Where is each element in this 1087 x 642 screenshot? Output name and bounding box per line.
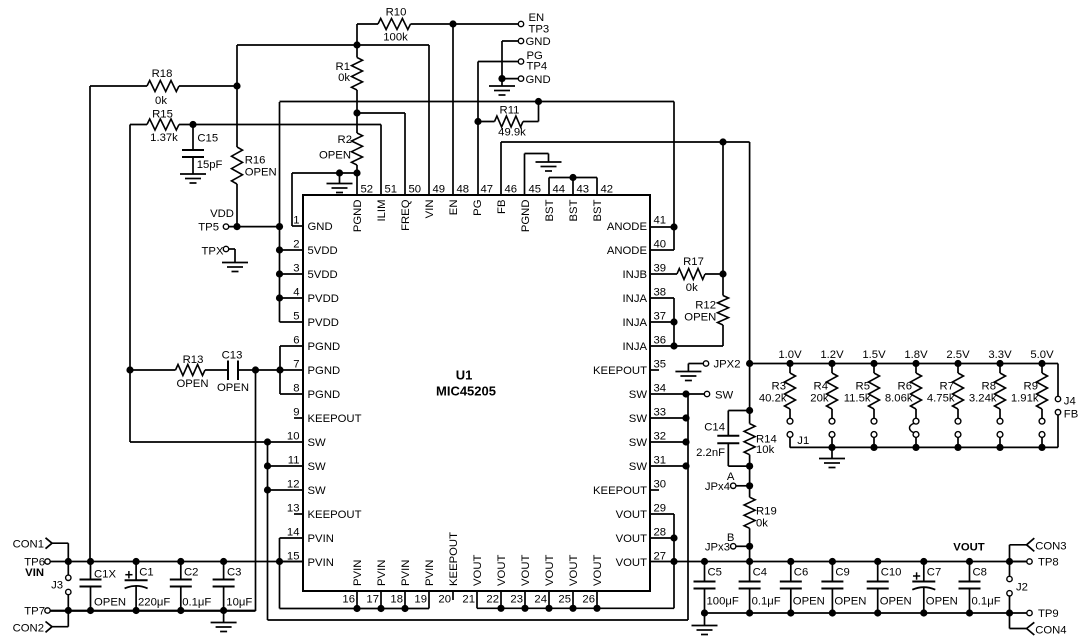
- svg-text:51: 51: [385, 184, 398, 196]
- wire INJB vertical x723 from FB bus: [722, 142, 724, 274]
- svg-text:PGND: PGND: [308, 389, 341, 401]
- capacitor C3 10uF: [213, 562, 253, 611]
- svg-text:34: 34: [654, 383, 667, 395]
- svg-text:VOUT: VOUT: [953, 542, 984, 554]
- svg-text:SW: SW: [308, 437, 327, 449]
- svg-text:U1: U1: [456, 368, 473, 383]
- capacitor C4 0.1μF: [739, 562, 781, 614]
- svg-text:R8: R8: [982, 381, 996, 393]
- svg-text:C13: C13: [222, 350, 243, 362]
- svg-text:GND: GND: [308, 221, 333, 233]
- ground below GND test points: [489, 79, 515, 95]
- svg-text:C6: C6: [794, 566, 808, 578]
- capacitor C6 OPEN: [780, 562, 825, 614]
- svg-text:35: 35: [654, 359, 667, 371]
- node 1.8V label: [904, 349, 928, 361]
- svg-text:OPEN: OPEN: [880, 595, 912, 607]
- svg-text:SW: SW: [629, 437, 648, 449]
- resistor R2 OPEN: [319, 113, 363, 195]
- svg-text:CON4: CON4: [1035, 624, 1066, 636]
- resistor R10 100k: [357, 7, 519, 46]
- svg-text:41: 41: [654, 215, 667, 227]
- svg-text:OPEN: OPEN: [94, 596, 126, 608]
- resistor R14 10k: [744, 364, 777, 486]
- wire VOUT bus y561: [650, 558, 1027, 565]
- wire R18 left to VIN bus vertical x90: [89, 86, 91, 562]
- svg-text:0k: 0k: [155, 95, 167, 107]
- wire R15 to pin51 ILIM: [380, 125, 382, 196]
- connector J4 FB header: [1055, 364, 1078, 448]
- svg-text:OPEN: OPEN: [217, 382, 249, 394]
- wire GND bus bottom right: [701, 609, 1013, 616]
- U1 right pin names and numbers 27-41: [593, 215, 666, 570]
- svg-text:PGND: PGND: [520, 200, 532, 233]
- svg-text:C10: C10: [881, 566, 902, 578]
- svg-text:PVIN: PVIN: [308, 533, 334, 545]
- svg-text:40: 40: [654, 239, 667, 251]
- svg-text:36: 36: [654, 335, 667, 347]
- svg-text:32: 32: [654, 431, 667, 443]
- svg-text:PVDD: PVDD: [308, 317, 339, 329]
- svg-text:GND: GND: [526, 74, 551, 86]
- test point TP8: [1010, 557, 1059, 569]
- svg-text:0.1μF: 0.1μF: [182, 596, 211, 608]
- wire FB y142 bus: [501, 138, 750, 363]
- node 3.3V label: [988, 349, 1012, 361]
- U1 bottom pin names and numbers 16-26: [342, 532, 604, 606]
- resistor R15 1.37k: [130, 109, 381, 145]
- svg-text:R2: R2: [338, 134, 352, 146]
- wire ladder bottom bus GND: [790, 444, 1058, 451]
- svg-text:19: 19: [414, 594, 427, 606]
- wire VOUT bottom bus pins 21-26: [477, 591, 674, 612]
- svg-text:A: A: [727, 471, 735, 483]
- resistor R7 4.75k: [927, 364, 964, 419]
- svg-text:220μF: 220μF: [138, 596, 170, 608]
- svg-text:VIN: VIN: [424, 200, 436, 219]
- svg-text:R4: R4: [814, 381, 828, 393]
- svg-text:0k: 0k: [338, 72, 350, 84]
- jumper JPx3 node B: [705, 532, 753, 562]
- svg-text:KEEPOUT: KEEPOUT: [308, 413, 362, 425]
- svg-text:6: 6: [293, 335, 299, 347]
- svg-text:43: 43: [577, 184, 590, 196]
- svg-text:17: 17: [366, 594, 379, 606]
- svg-text:KEEPOUT: KEEPOUT: [593, 485, 647, 497]
- svg-text:VOUT: VOUT: [592, 555, 604, 586]
- svg-text:24: 24: [534, 594, 547, 606]
- wire keepout stubs pins 9 13: [294, 418, 303, 514]
- node 1.5V label: [862, 349, 886, 361]
- resistor R16 OPEN: [232, 147, 277, 227]
- svg-text:4.75k: 4.75k: [927, 393, 955, 405]
- svg-text:1.0V: 1.0V: [778, 349, 802, 361]
- svg-text:49.9k: 49.9k: [498, 127, 526, 139]
- svg-text:VOUT: VOUT: [616, 533, 647, 545]
- svg-text:OPEN: OPEN: [684, 312, 716, 324]
- capacitor C5 100μF: [694, 562, 739, 614]
- svg-text:OPEN: OPEN: [926, 595, 958, 607]
- ground below C15: [180, 174, 206, 183]
- svg-text:TP3: TP3: [529, 23, 550, 35]
- svg-text:FB: FB: [1064, 408, 1078, 420]
- svg-text:VOUT: VOUT: [616, 557, 647, 569]
- resistor R6 8.06k: [885, 364, 922, 419]
- node 1.2V label: [820, 349, 844, 361]
- capacitor C7 OPEN: [912, 562, 958, 614]
- svg-text:C15: C15: [197, 133, 218, 145]
- svg-text:10μF: 10μF: [226, 596, 252, 608]
- wire PG to pin47: [477, 62, 479, 196]
- svg-text:CON3: CON3: [1035, 541, 1066, 553]
- resistor R13 OPEN: [126, 354, 228, 390]
- capacitor C9 OPEN: [821, 562, 866, 614]
- svg-text:OPEN: OPEN: [245, 167, 277, 179]
- svg-text:8: 8: [293, 383, 299, 395]
- svg-text:VOUT: VOUT: [568, 555, 580, 586]
- wire PGND vertical x255 to bottom gnd bus: [48, 370, 256, 611]
- test point TP9: [1010, 608, 1059, 620]
- jumper J1 position 5.0V: [1039, 418, 1045, 447]
- svg-text:C5: C5: [708, 566, 722, 578]
- svg-text:BST: BST: [544, 199, 556, 221]
- test point TP6 VIN: [24, 557, 50, 569]
- svg-text:R6: R6: [898, 381, 912, 393]
- wire VIN y45 bus: [237, 45, 429, 195]
- resistor R12 OPEN: [674, 274, 729, 346]
- wire keepout stub pin 20: [452, 591, 454, 600]
- resistor R19 0k: [744, 486, 777, 547]
- svg-text:R15: R15: [152, 109, 173, 121]
- svg-text:BST: BST: [592, 199, 604, 221]
- svg-text:16: 16: [342, 594, 355, 606]
- capacitor C10 OPEN: [867, 562, 912, 614]
- ground below JPX2: [675, 372, 701, 381]
- jumper JPx4 node A: [705, 471, 753, 493]
- jumper J1 label: [797, 435, 809, 447]
- svg-text:ANODE: ANODE: [607, 221, 648, 233]
- svg-text:12: 12: [287, 479, 300, 491]
- resistor R18 0k: [90, 68, 237, 107]
- svg-text:23: 23: [510, 594, 523, 606]
- svg-text:1.37k: 1.37k: [150, 132, 178, 144]
- ground below TPX: [222, 263, 248, 272]
- svg-text:7: 7: [293, 359, 299, 371]
- ground below C3: [211, 611, 237, 632]
- svg-text:2: 2: [293, 239, 299, 251]
- resistor R5 11.5k: [844, 364, 880, 419]
- svg-text:1.8V: 1.8V: [904, 349, 928, 361]
- jumper J1 position 1.5V: [871, 418, 877, 447]
- ground below ladder bus: [819, 447, 845, 467]
- test point GND lower: [498, 74, 550, 86]
- svg-text:TP4: TP4: [527, 60, 548, 72]
- svg-text:44: 44: [553, 184, 566, 196]
- svg-text:22: 22: [486, 594, 499, 606]
- jumper J1 position 1.8V: [910, 418, 919, 447]
- svg-text:9: 9: [293, 407, 299, 419]
- svg-text:25: 25: [558, 594, 571, 606]
- svg-text:VOUT: VOUT: [496, 555, 508, 586]
- svg-text:TP9: TP9: [1038, 608, 1059, 620]
- capacitor C14 2.2nF: [696, 407, 753, 466]
- svg-text:SW: SW: [308, 485, 327, 497]
- svg-text:C1X: C1X: [94, 569, 116, 581]
- ground at pin52/pin1: [327, 173, 353, 193]
- svg-text:C4: C4: [753, 566, 767, 578]
- svg-text:EN: EN: [529, 12, 545, 24]
- svg-text:0.1μF: 0.1μF: [752, 595, 781, 607]
- svg-text:J3: J3: [51, 580, 63, 592]
- svg-text:18: 18: [390, 594, 403, 606]
- ground at pin45 PGND: [525, 154, 562, 196]
- wire FREQ junction to pin50: [357, 113, 405, 195]
- svg-text:J2: J2: [1016, 581, 1028, 593]
- resistor R3 40.2k: [759, 364, 796, 419]
- svg-text:50: 50: [409, 184, 422, 196]
- svg-text:FB: FB: [496, 200, 508, 214]
- svg-text:SW: SW: [629, 389, 648, 401]
- jumper J1 position 1.2V: [829, 418, 835, 447]
- svg-text:5VDD: 5VDD: [308, 245, 338, 257]
- svg-text:31: 31: [654, 455, 667, 467]
- svg-text:R17: R17: [683, 256, 704, 268]
- ground below C5: [692, 613, 718, 635]
- svg-text:JPX2: JPX2: [714, 359, 741, 371]
- wire VOUT right bus pins 27-29: [650, 514, 678, 608]
- svg-text:4: 4: [293, 287, 299, 299]
- svg-text:PVIN: PVIN: [424, 560, 436, 586]
- svg-text:C3: C3: [227, 567, 241, 579]
- svg-text:VOUT: VOUT: [520, 555, 532, 586]
- svg-text:3.3V: 3.3V: [988, 349, 1012, 361]
- svg-text:INJA: INJA: [623, 293, 648, 305]
- svg-text:10: 10: [287, 431, 300, 443]
- svg-text:R9: R9: [1024, 381, 1038, 393]
- node 5.0V label: [1030, 349, 1054, 361]
- svg-text:CON1: CON1: [13, 539, 44, 551]
- svg-text:OPEN: OPEN: [834, 595, 866, 607]
- wire FB ladder top bus: [746, 360, 1058, 367]
- svg-text:42: 42: [601, 184, 614, 196]
- svg-text:40.2k: 40.2k: [759, 393, 787, 405]
- svg-text:20k: 20k: [810, 393, 829, 405]
- wire SW bottom bus under IC: [268, 394, 689, 620]
- svg-text:15pF: 15pF: [197, 159, 223, 171]
- wire VDD y101 bus to ANODE: [280, 102, 678, 251]
- svg-text:PG: PG: [472, 200, 484, 216]
- svg-text:VDD: VDD: [210, 208, 234, 220]
- svg-text:VOUT: VOUT: [616, 509, 647, 521]
- svg-text:EN: EN: [448, 200, 460, 216]
- test point GND upper: [502, 36, 551, 78]
- svg-text:TPX: TPX: [202, 246, 224, 258]
- svg-text:CON2: CON2: [13, 623, 44, 635]
- wire PVIN bottom bus pins 16-19: [280, 591, 430, 612]
- svg-text:52: 52: [361, 184, 374, 196]
- svg-text:C8: C8: [973, 566, 987, 578]
- svg-text:PVIN: PVIN: [308, 557, 334, 569]
- svg-text:PVDD: PVDD: [308, 293, 339, 305]
- svg-text:100μF: 100μF: [707, 595, 739, 607]
- resistor R17 0k: [650, 256, 727, 294]
- resistor R1 0k: [336, 41, 363, 116]
- svg-text:37: 37: [654, 311, 667, 323]
- wire VIN bus y561: [50, 558, 303, 565]
- wire SW right bus pins 31-34: [650, 390, 690, 469]
- svg-text:PVIN: PVIN: [400, 560, 412, 586]
- connector CON1: [13, 538, 69, 562]
- svg-text:0.1μF: 0.1μF: [972, 595, 1001, 607]
- svg-text:C14: C14: [704, 422, 725, 434]
- test point TP3 EN: [518, 12, 549, 35]
- wire SW left bus pins 10-12: [264, 438, 303, 620]
- svg-text:1.2V: 1.2V: [820, 349, 844, 361]
- svg-text:R3: R3: [772, 381, 786, 393]
- svg-text:J4: J4: [1064, 396, 1076, 408]
- svg-text:R10: R10: [386, 7, 407, 19]
- wire pin1 GND stub: [292, 169, 357, 226]
- svg-text:KEEPOUT: KEEPOUT: [308, 509, 362, 521]
- capacitor C13 OPEN: [217, 350, 256, 395]
- svg-text:48: 48: [457, 184, 470, 196]
- svg-text:1: 1: [293, 215, 299, 227]
- jumper JPX2: [688, 359, 740, 372]
- svg-text:R16: R16: [245, 155, 266, 167]
- svg-text:SW: SW: [629, 461, 648, 473]
- capacitor C8 0.1μF: [959, 562, 1001, 614]
- svg-text:GND: GND: [526, 36, 551, 48]
- svg-text:2.2nF: 2.2nF: [696, 447, 725, 459]
- svg-text:38: 38: [654, 287, 667, 299]
- svg-text:39: 39: [654, 263, 667, 275]
- U1 top pin names and numbers 42-52: [352, 184, 613, 233]
- svg-text:21: 21: [462, 594, 475, 606]
- connector CON3: [1010, 538, 1067, 561]
- node VOUT label: [953, 542, 984, 554]
- wire pin14 pin15 PVIN bracket: [276, 538, 303, 609]
- svg-text:2.5V: 2.5V: [946, 349, 970, 361]
- svg-text:0k: 0k: [686, 282, 698, 294]
- resistor R11 49.9k: [474, 98, 542, 139]
- svg-text:5: 5: [293, 311, 299, 323]
- svg-text:3.24k: 3.24k: [969, 393, 997, 405]
- svg-text:C7: C7: [927, 566, 941, 578]
- svg-text:PVIN: PVIN: [352, 560, 364, 586]
- svg-text:0k: 0k: [756, 517, 768, 529]
- svg-text:1.91k: 1.91k: [1011, 393, 1039, 405]
- svg-text:100k: 100k: [383, 32, 408, 44]
- jumper J2: [1007, 562, 1028, 614]
- svg-text:SW: SW: [308, 461, 327, 473]
- svg-text:INJB: INJB: [623, 269, 647, 281]
- capacitor C1X OPEN: [80, 562, 127, 611]
- svg-text:47: 47: [481, 184, 494, 196]
- svg-text:PGND: PGND: [308, 365, 341, 377]
- svg-text:J1: J1: [797, 435, 809, 447]
- capacitor C1 220uF: [125, 562, 171, 611]
- wire EN junction to pin48: [449, 20, 456, 195]
- svg-text:ILIM: ILIM: [376, 200, 388, 222]
- svg-text:FREQ: FREQ: [400, 199, 412, 231]
- svg-text:5.0V: 5.0V: [1030, 349, 1054, 361]
- svg-text:R12: R12: [695, 300, 716, 312]
- jumper J1 position 2.5V: [955, 418, 961, 447]
- connector CON2: [13, 611, 69, 635]
- node 2.5V label: [946, 349, 970, 361]
- svg-text:13: 13: [287, 503, 300, 515]
- node 1.0V label: [778, 349, 802, 361]
- svg-text:OPEN: OPEN: [319, 149, 351, 161]
- svg-text:SW: SW: [715, 389, 734, 401]
- resistor R8 3.24k: [969, 364, 1006, 419]
- svg-text:SW: SW: [629, 413, 648, 425]
- svg-text:R13: R13: [183, 354, 204, 366]
- wire GND bus bottom left: [50, 607, 255, 614]
- svg-text:PGND: PGND: [352, 200, 364, 233]
- svg-text:B: B: [727, 532, 735, 544]
- svg-text:PVIN: PVIN: [376, 560, 388, 586]
- svg-text:20: 20: [438, 594, 451, 606]
- svg-text:R1: R1: [336, 61, 350, 73]
- node VIN label: [25, 567, 44, 579]
- svg-text:8.06k: 8.06k: [885, 393, 913, 405]
- svg-text:OPEN: OPEN: [176, 378, 208, 390]
- test point TP5 VDD: [198, 208, 234, 233]
- svg-text:MIC45205: MIC45205: [436, 384, 496, 399]
- wire x130 vertical R15/R13 to SW pin10: [130, 125, 303, 443]
- svg-text:VOUT: VOUT: [544, 555, 556, 586]
- svg-text:PGND: PGND: [308, 341, 341, 353]
- svg-text:VOUT: VOUT: [472, 555, 484, 586]
- jumper J1 position 1.0V: [787, 418, 793, 447]
- test point TP4 PG: [478, 50, 547, 72]
- wire INJA bracket pins 36-38: [650, 298, 678, 350]
- op-amp U1 body MIC45205: [303, 195, 650, 591]
- svg-text:46: 46: [505, 184, 518, 196]
- svg-text:TP7: TP7: [24, 606, 45, 618]
- svg-text:10k: 10k: [756, 444, 775, 456]
- svg-text:14: 14: [287, 527, 300, 539]
- svg-text:C9: C9: [835, 566, 849, 578]
- svg-text:R5: R5: [856, 381, 870, 393]
- test point SW: [686, 389, 734, 401]
- test point TPX: [202, 246, 235, 263]
- wire BST bracket pins 44 43 42: [549, 174, 597, 195]
- svg-text:BST: BST: [568, 199, 580, 221]
- svg-text:R19: R19: [756, 506, 777, 518]
- wire PGND C13 to pin7 bracket: [252, 346, 303, 394]
- capacitor C2 0.1uF: [170, 562, 212, 611]
- connector CON4: [1010, 613, 1067, 636]
- svg-text:JPx4: JPx4: [705, 481, 730, 493]
- svg-text:OPEN: OPEN: [793, 595, 825, 607]
- jumper J3: [51, 562, 71, 611]
- svg-text:49: 49: [433, 184, 446, 196]
- svg-text:INJA: INJA: [623, 317, 648, 329]
- wire keepout stubs pins 35 30: [650, 370, 659, 490]
- svg-text:R18: R18: [152, 68, 173, 80]
- svg-text:1.5V: 1.5V: [862, 349, 886, 361]
- svg-text:C2: C2: [184, 567, 198, 579]
- svg-text:45: 45: [529, 184, 542, 196]
- svg-text:28: 28: [654, 527, 667, 539]
- svg-text:11.5k: 11.5k: [844, 393, 871, 405]
- svg-text:VIN: VIN: [25, 567, 44, 579]
- svg-text:3: 3: [293, 263, 299, 275]
- svg-text:R11: R11: [500, 105, 520, 117]
- test point TP7: [24, 606, 50, 618]
